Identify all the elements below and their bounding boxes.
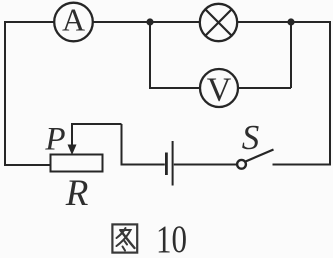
rheostat wiper arrow P (68, 123, 77, 155)
wire voltmeter branch right vertical (290, 22, 292, 88)
wire ammeter to lamp (93, 21, 200, 23)
svg-text:R: R (65, 173, 89, 214)
wire voltmeter branch left horizontal (149, 87, 200, 89)
wire battery to switch (174, 164, 237, 166)
svg-text:S: S (242, 118, 260, 157)
rheostat R1 body (51, 155, 103, 172)
svg-text:P: P (44, 122, 65, 158)
wire left vertical (4, 21, 6, 166)
svg-text:V: V (207, 72, 232, 109)
wire bottom-left to rheostat (5, 164, 51, 166)
wire voltmeter branch right horizontal (238, 87, 291, 89)
wire rheostat riser to battery (122, 124, 165, 165)
wire wiper horizontal (72, 123, 122, 125)
wire right vertical (329, 21, 331, 166)
battery BT1 short plate (165, 153, 168, 176)
svg-text:A: A (62, 2, 85, 38)
wire bottom-right to switch (273, 164, 331, 166)
battery BT1 long plate (172, 141, 174, 186)
caption figure character tu (112, 224, 137, 252)
voltmeter V1 (200, 69, 238, 109)
wire top-left segment (5, 21, 54, 23)
wire voltmeter branch left vertical (149, 22, 151, 88)
wire lamp to top-right corner (238, 21, 331, 23)
svg-text:10: 10 (156, 218, 187, 258)
node junction right (287, 18, 294, 25)
lamp L1 (200, 4, 237, 41)
switch S (237, 150, 273, 169)
ammeter A1 (54, 2, 93, 42)
node junction left (146, 18, 153, 25)
